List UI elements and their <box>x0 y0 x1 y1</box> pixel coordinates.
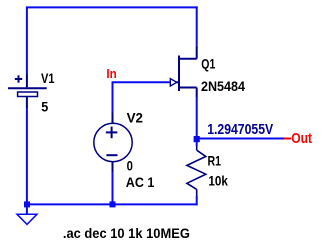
svg-text:Q1: Q1 <box>201 56 215 71</box>
junction V2 to ground rail <box>110 201 116 207</box>
wire V2 top vertical <box>112 81 114 112</box>
svg-text:V2: V2 <box>127 110 144 125</box>
wire resistor bottom vertical <box>196 196 198 206</box>
battery V1 bottom lead navy <box>26 97 28 109</box>
svg-text:R1: R1 <box>208 153 222 168</box>
svg-text:V1: V1 <box>41 71 55 86</box>
V2 bottom lead navy <box>112 161 114 172</box>
resistor R1 bottom lead navy <box>196 189 198 195</box>
svg-text:10k: 10k <box>208 173 228 188</box>
wire top horizontal V1 to Q1 drain <box>26 6 198 8</box>
V2 plus sign <box>106 127 117 139</box>
V2 minus sign <box>106 154 117 156</box>
Q1 gate lead with arrow <box>177 81 180 83</box>
wire resistor top vertical <box>196 139 198 146</box>
resistor R1 top lead navy <box>196 146 198 150</box>
wire source vertical to Out node <box>196 97 198 139</box>
Q1 source lead <box>179 87 197 89</box>
wire left vertical top (V1 plus lead) <box>26 7 28 74</box>
battery V1 top lead navy <box>26 74 28 87</box>
ground <box>17 214 37 224</box>
wire gate horizontal In to Q1 gate <box>113 81 170 83</box>
wire left vertical bottom (V1 minus to ground junction) <box>26 108 28 214</box>
wire Out stub horizontal <box>197 138 288 140</box>
wire bottom horizontal ground rail <box>27 203 197 205</box>
svg-text:.ac dec 10 1k 10MEG: .ac dec 10 1k 10MEG <box>63 226 190 241</box>
svg-text:AC 1: AC 1 <box>126 175 155 190</box>
svg-text:5: 5 <box>41 100 48 115</box>
resistor R1 zigzag <box>187 150 206 189</box>
battery V1 positive plate <box>8 87 47 89</box>
svg-text:Out: Out <box>291 130 312 147</box>
svg-text:In: In <box>106 66 116 81</box>
voltage source V2 circle <box>94 123 132 161</box>
wire drain vertical to top rail <box>196 6 198 45</box>
V2 top lead navy <box>112 113 114 124</box>
wire V2 bottom vertical <box>112 172 114 204</box>
node Out label lead-in dash <box>284 138 291 140</box>
junction at ground node <box>24 201 30 207</box>
transistor Q1 JFET channel bar <box>178 56 180 92</box>
junction Out node <box>194 136 200 142</box>
Q1 drain lead <box>179 58 197 60</box>
battery V1 negative plate box <box>18 92 38 97</box>
battery V1 plus sign <box>15 75 22 82</box>
svg-text:0: 0 <box>127 159 134 174</box>
svg-text:2N5484: 2N5484 <box>201 79 245 94</box>
svg-text:1.2947055V: 1.2947055V <box>207 122 273 138</box>
